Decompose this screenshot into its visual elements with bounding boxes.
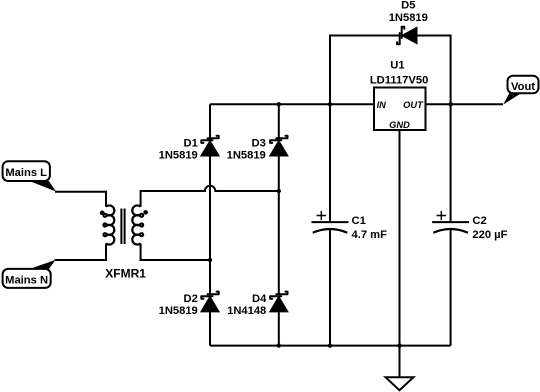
ground [386, 346, 414, 391]
wire secondary bottom to D2 column [141, 244, 210, 260]
diode D4 [270, 292, 288, 312]
wire U1 GND pin [399, 130, 401, 346]
primary winding [103, 205, 114, 244]
svg-text:1N5819: 1N5819 [159, 150, 198, 162]
flag Mains N [3, 260, 56, 288]
wire Mains L to transformer primary top [55, 192, 106, 207]
svg-text:D5: D5 [401, 0, 415, 11]
flag Mains L [3, 161, 56, 191]
diode D2 [201, 292, 219, 312]
svg-text:Vout: Vout [511, 81, 535, 93]
wire secondary top to node at D3 column (hop over D1 column) [141, 186, 279, 207]
wire Mains N to transformer primary bottom [55, 244, 107, 260]
wire D5 branch loop [330, 36, 451, 105]
svg-text:1N5819: 1N5819 [227, 150, 266, 162]
diode D1 [201, 136, 219, 156]
svg-text:1N5819: 1N5819 [159, 305, 198, 317]
wire top rail OUT side [426, 103, 504, 105]
svg-text:IN: IN [377, 100, 387, 110]
capacitor C1 [312, 211, 349, 233]
svg-text:1N5819: 1N5819 [389, 12, 428, 24]
svg-text:220 µF: 220 µF [472, 229, 507, 241]
capacitor C2 [432, 211, 469, 233]
svg-text:D4: D4 [252, 293, 267, 305]
svg-text:D3: D3 [251, 137, 265, 149]
svg-text:Mains L: Mains L [5, 167, 47, 179]
svg-text:LD1117V50: LD1117V50 [370, 74, 428, 86]
node rail/GND [397, 343, 401, 347]
flag Vout [503, 76, 538, 105]
wire C2 column [450, 104, 452, 345]
node rail/C1 [328, 343, 332, 347]
node secondary-bottom/D2 [208, 258, 212, 262]
svg-text:1N4148: 1N4148 [227, 305, 266, 317]
svg-text:Mains N: Mains N [5, 275, 48, 287]
svg-text:C2: C2 [472, 215, 486, 227]
wire D1-D2 column [209, 104, 211, 345]
svg-text:4.7 mF: 4.7 mF [352, 229, 388, 241]
node IN [328, 102, 332, 106]
wire C1 column [329, 104, 331, 345]
wire top rail IN side [210, 103, 374, 105]
wire bottom ground rail [210, 345, 451, 347]
diode D3 [270, 136, 288, 156]
core [121, 209, 124, 245]
svg-text:GND: GND [389, 120, 410, 130]
op-amp U1 regulator box [374, 88, 426, 131]
node rail/D4 [277, 343, 281, 347]
svg-text:U1: U1 [390, 59, 404, 71]
svg-text:D1: D1 [183, 137, 197, 149]
polarity dot secondary [143, 210, 148, 215]
node secondary-top/D3 [277, 189, 281, 193]
polarity dot primary [100, 211, 105, 216]
secondary winding [132, 205, 143, 244]
svg-text:C1: C1 [352, 215, 366, 227]
transformer XFMR1 [100, 205, 148, 244]
wire D3-D4 column [278, 104, 280, 345]
diode D5 [397, 27, 417, 44]
svg-text:XFMR1: XFMR1 [105, 267, 146, 281]
svg-text:D2: D2 [183, 293, 197, 305]
svg-text:OUT: OUT [403, 100, 424, 110]
node OUT [448, 102, 452, 106]
node top-rail/D3 [277, 102, 281, 106]
